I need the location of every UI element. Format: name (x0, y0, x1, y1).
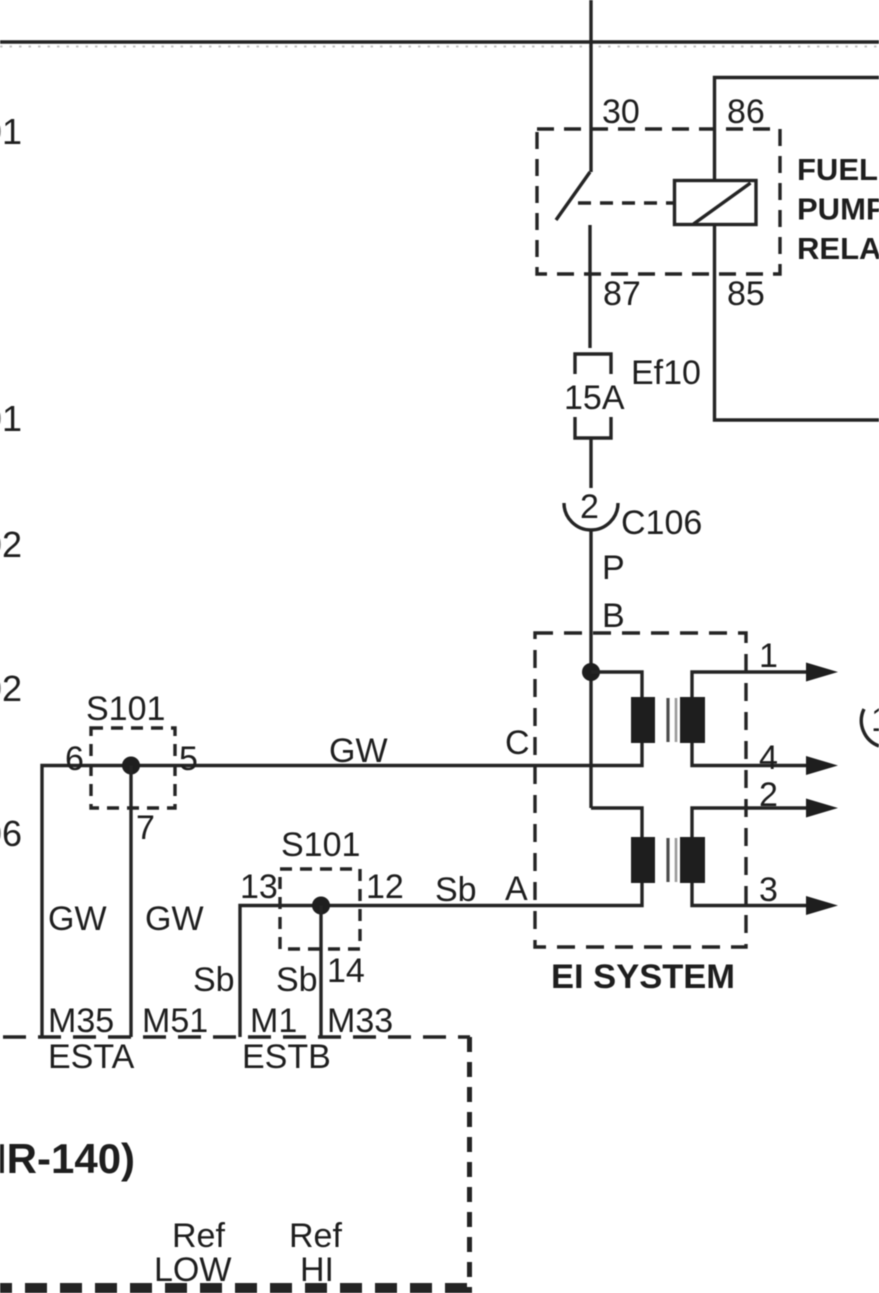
node: S101 lower junction (312, 897, 330, 915)
connector C106 arc (564, 503, 618, 530)
svg-text:M1: M1 (250, 1002, 297, 1040)
wire: faint dotted line under bus (0, 46, 879, 48)
relay switch contact (556, 172, 590, 220)
ECM dashed box right edge (467, 1037, 472, 1293)
wire: fuse to connector (589, 438, 592, 488)
coil2 core (666, 838, 669, 882)
wire: A / Sb horizontal to coil2 primary bottom (240, 883, 642, 1037)
wire: top horizontal bus (0, 40, 879, 43)
svg-text:Sb: Sb (276, 961, 318, 999)
svg-text:85: 85 (727, 275, 765, 313)
wire: coil2 secondary to output 3 (692, 883, 815, 906)
svg-text:87: 87 (603, 275, 641, 313)
svg-text:02: 02 (0, 524, 22, 565)
svg-text:M35: M35 (48, 1002, 114, 1040)
svg-text:LOW: LOW (154, 1251, 231, 1289)
svg-text:01: 01 (0, 398, 22, 439)
svg-text:EI SYSTEM: EI SYSTEM (551, 958, 735, 996)
wire: coil1 secondary to output 4 (692, 743, 815, 766)
ECM dashed box top edge (3, 1035, 470, 1039)
svg-text:Ef10: Ef10 (631, 354, 701, 392)
svg-text:M51: M51 (142, 1002, 208, 1040)
svg-text:86: 86 (727, 93, 765, 131)
svg-text:Sb: Sb (435, 871, 477, 909)
svg-text:C: C (505, 724, 530, 762)
svg-text:7: 7 (136, 809, 155, 847)
svg-text:P: P (602, 549, 625, 587)
svg-text:1: 1 (871, 701, 879, 739)
svg-text:6: 6 (65, 740, 84, 778)
svg-text:RELAY: RELAY (797, 231, 879, 266)
svg-text:S101: S101 (281, 826, 360, 864)
svg-text:HI: HI (300, 1251, 334, 1289)
svg-text:B: B (602, 597, 625, 635)
svg-text:Ref: Ref (172, 1217, 225, 1255)
wire: connector to EI system node (589, 531, 592, 808)
svg-text:GW: GW (48, 900, 107, 938)
fuse Ef10 top bracket (575, 354, 611, 374)
svg-text:4: 4 (759, 739, 778, 777)
coil1 core (666, 698, 669, 742)
svg-text:ESTA: ESTA (48, 1038, 135, 1076)
wire: coil2 secondary to output 2 (692, 808, 815, 837)
svg-text:Ref: Ref (289, 1217, 342, 1255)
arrow output 3 (806, 896, 838, 915)
coil2 secondary winding (680, 837, 705, 883)
arrow output 1 (806, 663, 838, 682)
ECM dashed box bottom edge (heavy) (0, 1283, 470, 1293)
svg-text:02: 02 (0, 668, 22, 709)
wire: junction to coil1 primary top (591, 672, 642, 697)
svg-text:GW: GW (329, 732, 388, 770)
wire: vertical feed to relay terminal 30 (589, 0, 592, 172)
relay coil U (675, 181, 757, 225)
fuse Ef10 bottom bracket (575, 417, 611, 438)
coil1 secondary winding (680, 697, 705, 743)
box edge: right-hand component outline (715, 78, 879, 421)
svg-text:06: 06 (0, 813, 22, 854)
svg-text:14: 14 (327, 952, 365, 990)
wire: dashed actuator link (578, 201, 673, 204)
svg-text:GW: GW (145, 900, 204, 938)
wire: junction down (14 / Sb) (319, 906, 322, 1038)
svg-text:M33: M33 (327, 1002, 393, 1040)
arrow output 2 (806, 799, 838, 818)
wire: coil1 secondary to output 1 (692, 672, 815, 697)
svg-text:15A: 15A (564, 379, 625, 417)
svg-text:PUMP: PUMP (797, 192, 879, 227)
svg-text:5: 5 (179, 740, 198, 778)
arrow output 4 (806, 756, 838, 775)
svg-text:01: 01 (0, 111, 22, 152)
EI SYSTEM dashed box (535, 633, 746, 947)
svg-text:2: 2 (759, 776, 778, 814)
svg-text:3: 3 (759, 871, 778, 909)
svg-text:A: A (505, 870, 528, 908)
splice S101 upper dashed box (91, 728, 175, 808)
svg-text:2: 2 (580, 488, 599, 526)
wire: junction down and over to coil2 primary (591, 808, 642, 837)
svg-text:Sb: Sb (193, 961, 235, 999)
coil1 primary winding (631, 697, 655, 743)
wire: junction down (7 / GW) (129, 766, 132, 1038)
svg-text:S101: S101 (86, 690, 165, 728)
wire: switch lower terminal (588, 225, 591, 348)
svg-text:30: 30 (602, 93, 640, 131)
svg-text:ESTB: ESTB (242, 1038, 331, 1076)
svg-text:IR-140): IR-140) (0, 1135, 135, 1182)
svg-text:C106: C106 (621, 504, 702, 542)
svg-text:1: 1 (759, 637, 778, 675)
connector partial at right edge (861, 709, 879, 746)
coil2 primary winding (631, 837, 655, 883)
node: B junction (582, 663, 600, 681)
node: S101 upper junction (122, 757, 140, 775)
svg-text:FUEL: FUEL (797, 152, 878, 187)
svg-text:13: 13 (240, 868, 278, 906)
svg-text:12: 12 (366, 868, 404, 906)
splice S101 lower dashed box (280, 869, 360, 949)
relay FUEL PUMP RELAY dashed box (537, 129, 780, 274)
wire: C / GW horizontal to coil1 primary bottom (42, 743, 642, 1037)
